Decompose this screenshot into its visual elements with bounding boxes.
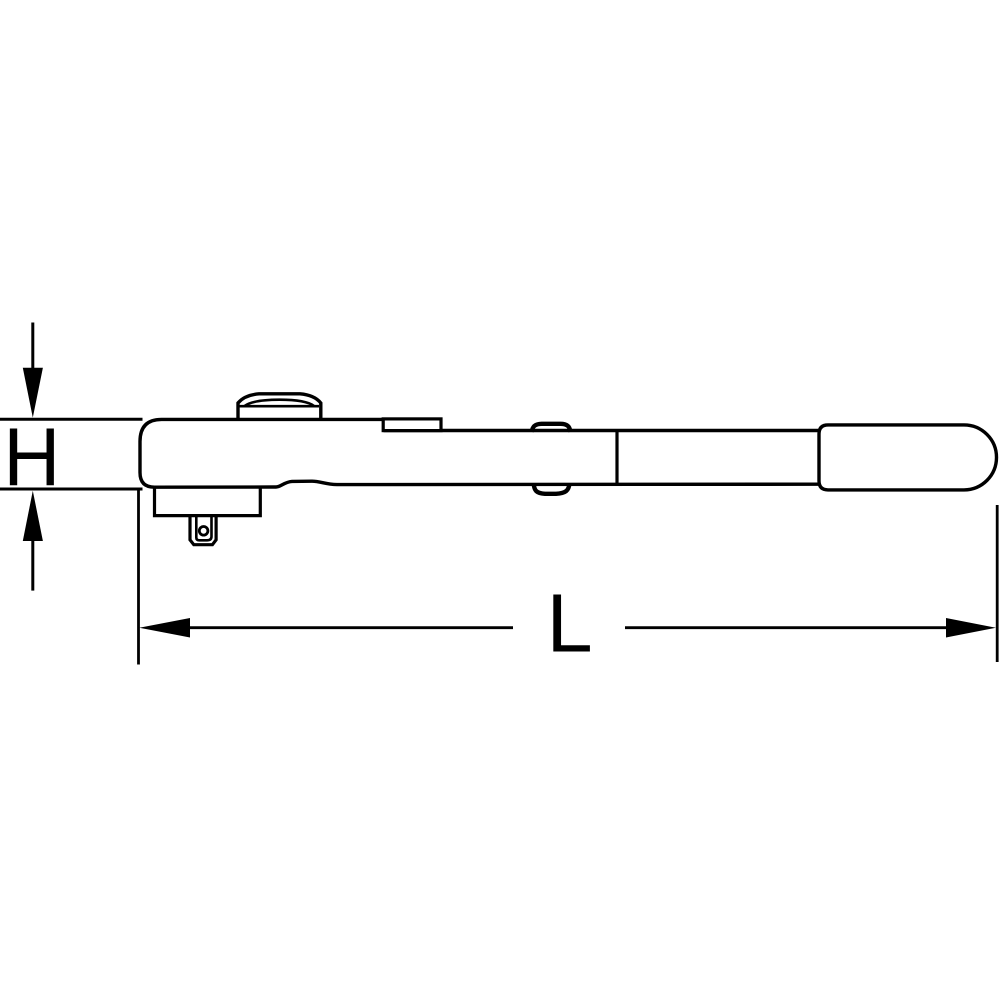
- shaft section divider line: [615, 431, 618, 485]
- square drive inner contour: [196, 517, 211, 540]
- H bottom arrow leader line: [31, 539, 34, 591]
- upper spring clip on shaft: [532, 424, 571, 432]
- L left extension line: [137, 489, 140, 665]
- handle (rounded grip): [819, 425, 997, 490]
- H top arrow leader line: [31, 323, 34, 371]
- knob inner arc: [245, 400, 315, 406]
- knob seam line: [240, 405, 320, 408]
- H top arrowhead (points down): [23, 368, 43, 418]
- L left arrowhead (points left): [139, 618, 190, 638]
- L right arrowhead (points right): [946, 618, 996, 638]
- H bottom arrowhead (points up): [23, 491, 43, 541]
- detent pin hole circle: [199, 527, 208, 536]
- svg-text:H: H: [3, 412, 60, 504]
- svg-text:L: L: [547, 577, 593, 670]
- lower spring clip on shaft: [534, 484, 570, 494]
- L dimension line right segment: [625, 626, 950, 629]
- H bottom extension line: [0, 488, 143, 491]
- wrench head and shaft outline: [140, 419, 819, 487]
- adjuster tab rectangle on shaft top: [383, 419, 441, 431]
- shaft top line: [384, 429, 820, 432]
- L right extension line: [996, 505, 999, 662]
- knob dome cap on ratchet head: [238, 394, 321, 420]
- L dimension line left segment: [185, 626, 513, 629]
- ratchet bottom cover block: [155, 487, 261, 516]
- square drive outer contour: [190, 516, 216, 545]
- H top extension line: [0, 418, 143, 421]
